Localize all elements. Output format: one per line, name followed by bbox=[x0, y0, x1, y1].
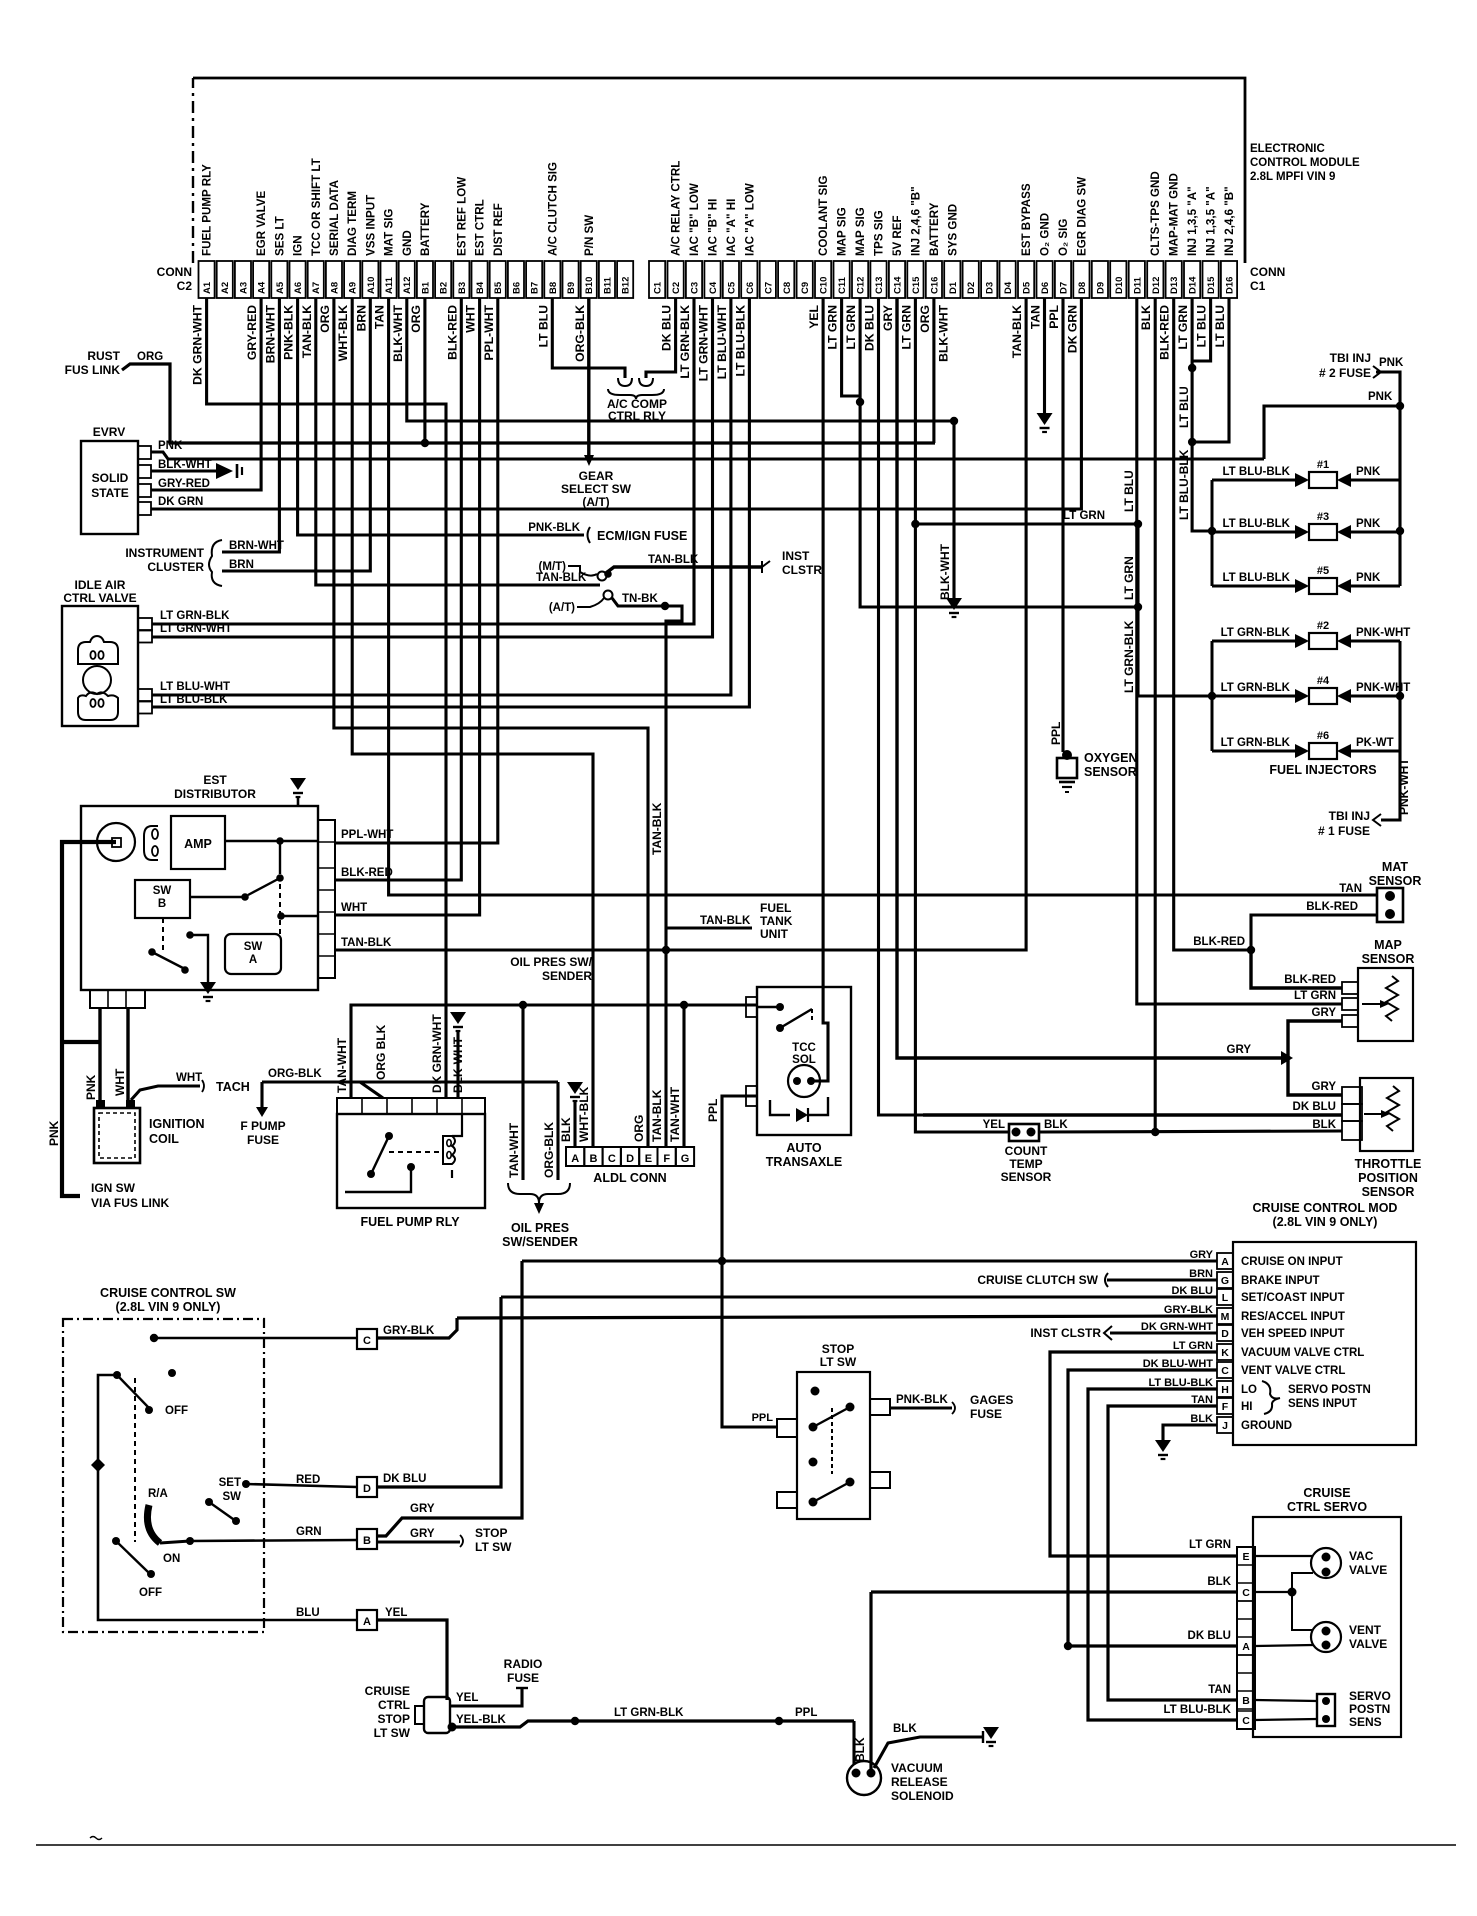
wire DK BLU-WHT cruise module C to servo vent valve bbox=[1068, 1370, 1237, 1646]
svg-text:D9: D9 bbox=[1095, 282, 1106, 294]
node PPL junction bbox=[775, 1717, 783, 1725]
wire A9 WHT-BLK to ALDL pin B bbox=[352, 298, 593, 1147]
injector 1-3-5 right bus PNK bbox=[1398, 406, 1401, 586]
svg-text:FUSE: FUSE bbox=[970, 1407, 1002, 1421]
svg-text:CRUISE CLUTCH SW: CRUISE CLUTCH SW bbox=[977, 1273, 1098, 1287]
svg-text:FUEL PUMP RLY: FUEL PUMP RLY bbox=[201, 164, 214, 256]
cruise module pin M RES/ACCEL INPUT bbox=[1217, 1308, 1233, 1324]
wire D11 LT GRN to MAP sensor bbox=[1137, 298, 1342, 1004]
svg-text:INJ 2,4,6 "B": INJ 2,4,6 "B" bbox=[909, 186, 922, 256]
node gear select M/T contact bbox=[604, 570, 612, 578]
svg-text:TAN: TAN bbox=[1339, 883, 1362, 895]
svg-text:COIL: COIL bbox=[149, 1132, 179, 1146]
svg-text:LT GRN: LT GRN bbox=[1189, 1539, 1231, 1551]
node LT GRN-BLK junction bbox=[571, 1717, 579, 1725]
node BLK-RED junction bbox=[1247, 946, 1255, 954]
svg-text:A6: A6 bbox=[293, 282, 304, 294]
svg-text:(2.8L VIN 9 ONLY): (2.8L VIN 9 ONLY) bbox=[1273, 1215, 1378, 1229]
svg-text:TACH: TACH bbox=[216, 1080, 250, 1094]
svg-text:L: L bbox=[1222, 1292, 1229, 1304]
cruise module pin C VENT VALVE CTRL bbox=[1217, 1362, 1233, 1378]
wire BLK solenoid to servo bbox=[869, 1592, 872, 1773]
wire D16 LT BLU join bbox=[1192, 298, 1229, 442]
svg-text:DK BLU: DK BLU bbox=[383, 1473, 426, 1485]
svg-text:PNK: PNK bbox=[47, 1120, 61, 1146]
svg-text:B: B bbox=[363, 1535, 371, 1547]
svg-text:D1: D1 bbox=[948, 281, 959, 294]
wire D7 PPL to oxygen sensor bbox=[1061, 298, 1064, 752]
svg-text:TRANSAXLE: TRANSAXLE bbox=[766, 1155, 842, 1169]
svg-text:OFF: OFF bbox=[139, 1587, 162, 1599]
svg-text:CLSTR: CLSTR bbox=[782, 563, 822, 577]
svg-text:LT BLU-BLK: LT BLU-BLK bbox=[1223, 518, 1291, 530]
svg-text:LT BLU: LT BLU bbox=[1195, 305, 1209, 348]
svg-text:INSTRUMENT: INSTRUMENT bbox=[125, 546, 204, 560]
wire PPL transaxle to stop light switch bbox=[722, 1096, 777, 1427]
svg-text:#1: #1 bbox=[1317, 459, 1329, 471]
svg-text:FUEL: FUEL bbox=[760, 901, 791, 915]
wire LT BLU-BLK cruise module H to servo position sense bbox=[1088, 1389, 1237, 1720]
page footer rule bbox=[36, 1844, 1456, 1846]
EVRV solid state box bbox=[81, 441, 138, 534]
svg-text:GRY: GRY bbox=[1227, 1044, 1252, 1056]
transaxle internal diode bbox=[796, 1108, 808, 1122]
svg-text:CONTROL MODULE: CONTROL MODULE bbox=[1250, 157, 1360, 169]
svg-text:PNK-BLK: PNK-BLK bbox=[528, 522, 580, 534]
distributor SW A box bbox=[225, 934, 281, 974]
svg-text:EGR VALVE: EGR VALVE bbox=[255, 190, 268, 256]
svg-text:VALVE: VALVE bbox=[1349, 1563, 1387, 1577]
wire TCC feed from ECM C10 bbox=[811, 298, 828, 1081]
wire A6 PNK-BLK to ECM/IGN fuse bbox=[298, 298, 584, 535]
svg-text:D16: D16 bbox=[1225, 277, 1236, 294]
svg-text:LT SW: LT SW bbox=[475, 1540, 512, 1554]
svg-text:SENS INPUT: SENS INPUT bbox=[1288, 1398, 1357, 1410]
wire C2 DK BLU to A/C compressor control relay bbox=[646, 298, 676, 378]
svg-text:C15: C15 bbox=[911, 276, 922, 294]
svg-text:FUSE: FUSE bbox=[507, 1671, 539, 1685]
wire YEL to cruise ctrl stop light switch bbox=[377, 1620, 447, 1700]
svg-text:DK GRN: DK GRN bbox=[1065, 305, 1079, 353]
wire TAN cruise module F to servo position sense bbox=[1108, 1406, 1237, 1700]
svg-text:VSS INPUT: VSS INPUT bbox=[364, 195, 377, 256]
svg-text:GAGES: GAGES bbox=[970, 1393, 1013, 1407]
svg-text:PPL: PPL bbox=[1049, 722, 1063, 745]
svg-text:EST: EST bbox=[203, 773, 227, 787]
wire BLK-RED to MAP sensor bbox=[1251, 950, 1342, 988]
stop light switch contacts bbox=[811, 1387, 820, 1396]
svg-text:WHT-BLK: WHT-BLK bbox=[336, 305, 350, 361]
oil pressure sender bracket bbox=[508, 1183, 570, 1203]
auto transaxle box bbox=[757, 987, 851, 1135]
svg-text:SENSOR: SENSOR bbox=[1001, 1170, 1052, 1184]
distributor ground at top bbox=[297, 797, 300, 806]
svg-text:H: H bbox=[1221, 1384, 1229, 1396]
svg-text:SENS: SENS bbox=[1349, 1715, 1382, 1729]
svg-text:SERVO: SERVO bbox=[1349, 1689, 1391, 1703]
svg-text:BLK-RED: BLK-RED bbox=[1284, 974, 1336, 986]
svg-text:STATE: STATE bbox=[91, 486, 129, 500]
svg-text:TAN-BLK: TAN-BLK bbox=[1010, 305, 1024, 358]
svg-text:MAT: MAT bbox=[1382, 860, 1409, 874]
wire A1 DK GRN-WHT to fuel pump relay bbox=[207, 298, 446, 1098]
wire A7 TAN-BLK to gear select switch bbox=[316, 298, 600, 585]
svg-text:LT SW: LT SW bbox=[820, 1355, 857, 1369]
svg-text:GRY: GRY bbox=[1190, 1249, 1214, 1261]
svg-text:A5: A5 bbox=[275, 281, 286, 294]
svg-text:ORG: ORG bbox=[918, 305, 932, 333]
distributor right connector column bbox=[318, 820, 335, 978]
svg-text:A: A bbox=[363, 1616, 371, 1628]
svg-text:SOLID: SOLID bbox=[92, 471, 129, 485]
svg-text:SENSOR: SENSOR bbox=[1362, 952, 1415, 966]
svg-text:TAN-WHT: TAN-WHT bbox=[335, 1037, 349, 1093]
svg-text:BLK-RED: BLK-RED bbox=[445, 305, 459, 360]
cruise module pin G BRAKE INPUT bbox=[1217, 1272, 1233, 1288]
fuel injector #3 bbox=[1212, 531, 1295, 534]
svg-text:C10: C10 bbox=[819, 277, 830, 294]
svg-text:C14: C14 bbox=[893, 276, 904, 294]
servo internal wiring bbox=[1255, 1555, 1312, 1557]
A/C comp ctrl rly underbrace bbox=[608, 389, 664, 399]
ECM connector C2 pin row A1-A12 B1-B12 bbox=[199, 261, 215, 298]
svg-text:CRUISE: CRUISE bbox=[1303, 1486, 1350, 1500]
svg-text:LT BLU-BLK: LT BLU-BLK bbox=[160, 694, 228, 706]
svg-text:LT GRN-BLK: LT GRN-BLK bbox=[1122, 620, 1136, 693]
svg-text:DK BLU: DK BLU bbox=[1293, 1101, 1336, 1113]
svg-text:P/N SW: P/N SW bbox=[583, 215, 596, 256]
cruise module pin K VACUUM VALVE CTRL bbox=[1217, 1344, 1233, 1360]
svg-text:LT GRN: LT GRN bbox=[1294, 990, 1336, 1002]
svg-text:C9: C9 bbox=[800, 282, 811, 294]
svg-text:DK BLU: DK BLU bbox=[660, 305, 674, 351]
svg-text:LT BLU-BLK: LT BLU-BLK bbox=[1177, 449, 1191, 520]
svg-text:B12: B12 bbox=[621, 277, 632, 294]
svg-text:(A/T): (A/T) bbox=[549, 602, 575, 614]
svg-text:LT GRN-BLK: LT GRN-BLK bbox=[1221, 627, 1291, 639]
svg-text:LT GRN: LT GRN bbox=[1122, 556, 1136, 600]
cruise switch pin C bbox=[357, 1329, 377, 1349]
wire ORG-BLK tach fuse feed to fuel pump relay bbox=[262, 1080, 558, 1083]
svg-text:SW: SW bbox=[244, 941, 263, 953]
svg-text:IAC "A" LOW: IAC "A" LOW bbox=[743, 183, 756, 256]
ECM module box U1 (electronic control module) bbox=[193, 78, 1245, 263]
node BLK sensor ground junction bbox=[1151, 1128, 1159, 1136]
svg-text:LT BLU-BLK: LT BLU-BLK bbox=[733, 305, 747, 377]
svg-text:SENSOR: SENSOR bbox=[1369, 874, 1422, 888]
svg-text:ORG-BLK: ORG-BLK bbox=[573, 305, 587, 362]
svg-text:BLK: BLK bbox=[1190, 1413, 1213, 1425]
wire DK BLU cruise module L set/coast bbox=[501, 1295, 1217, 1298]
svg-text:C12: C12 bbox=[856, 277, 867, 294]
svg-text:K: K bbox=[1221, 1347, 1229, 1359]
svg-text:LT GRN: LT GRN bbox=[1063, 510, 1105, 522]
svg-text:LT GRN-BLK: LT GRN-BLK bbox=[614, 1707, 684, 1719]
cruise switch pin D bbox=[357, 1477, 377, 1497]
svg-text:PPL: PPL bbox=[1047, 304, 1061, 328]
wire BLK cruise module J to ground bbox=[1163, 1425, 1217, 1442]
svg-text:LT GRN: LT GRN bbox=[1173, 1340, 1213, 1352]
cruise module pin H LO bbox=[1217, 1381, 1233, 1397]
distributor internal switch lower bbox=[162, 918, 164, 952]
svg-text:CTRL RLY: CTRL RLY bbox=[608, 409, 666, 423]
node distributor amp junction bbox=[276, 837, 284, 845]
servo position sense brace bbox=[1262, 1381, 1280, 1414]
svg-text:GND: GND bbox=[401, 230, 414, 256]
svg-text:SENDER: SENDER bbox=[542, 969, 592, 983]
svg-text:TCC: TCC bbox=[792, 1042, 816, 1054]
svg-text:ORG BLK: ORG BLK bbox=[374, 1024, 388, 1080]
svg-text:CTRL SERVO: CTRL SERVO bbox=[1287, 1500, 1367, 1514]
svg-text:SERVO POSTN: SERVO POSTN bbox=[1288, 1384, 1371, 1396]
svg-text:GRY: GRY bbox=[881, 305, 895, 331]
svg-text:PNK-WHT: PNK-WHT bbox=[1356, 627, 1410, 639]
node LT BLU merge bbox=[1188, 364, 1196, 372]
svg-text:PNK: PNK bbox=[1368, 391, 1393, 403]
svg-text:EST REF LOW: EST REF LOW bbox=[455, 177, 468, 256]
svg-text:# 1 FUSE: # 1 FUSE bbox=[1318, 824, 1370, 838]
svg-text:A: A bbox=[1221, 1256, 1229, 1268]
ALDL connector ground at pin A bbox=[573, 1100, 576, 1147]
svg-text:TAN: TAN bbox=[1208, 1684, 1231, 1696]
distributor internal switch upper bbox=[279, 841, 281, 874]
svg-text:B8: B8 bbox=[548, 282, 559, 294]
fuel injector #6 bbox=[1212, 750, 1295, 753]
svg-text:J: J bbox=[1222, 1420, 1228, 1432]
svg-text:MAP SIG: MAP SIG bbox=[854, 207, 867, 256]
svg-text:D3: D3 bbox=[985, 282, 996, 294]
svg-text:UNIT: UNIT bbox=[760, 927, 789, 941]
svg-text:C7: C7 bbox=[763, 282, 774, 294]
wire LT GRN-BLK vertical to injectors 2-4-6 bbox=[1134, 520, 1142, 528]
svg-text:ORG: ORG bbox=[632, 1115, 646, 1142]
svg-text:SET/COAST INPUT: SET/COAST INPUT bbox=[1241, 1292, 1345, 1304]
svg-text:#4: #4 bbox=[1317, 675, 1330, 687]
svg-text:GRY-BLK: GRY-BLK bbox=[1164, 1304, 1213, 1316]
svg-text:STOP: STOP bbox=[822, 1342, 854, 1356]
wire A8 ORG to ALDL pin E bbox=[334, 298, 648, 1147]
svg-text:D12: D12 bbox=[1151, 277, 1162, 294]
svg-text:SET: SET bbox=[219, 1477, 241, 1489]
svg-text:O₂ GND: O₂ GND bbox=[1039, 213, 1052, 256]
svg-text:COOLANT SIG: COOLANT SIG bbox=[817, 175, 830, 256]
wire C15 LT GRN injector 2-4-6 feed bbox=[915, 298, 1009, 1132]
svg-text:FUEL PUMP RLY: FUEL PUMP RLY bbox=[360, 1215, 460, 1229]
svg-text:#2: #2 bbox=[1317, 620, 1329, 632]
svg-text:LT GRN-WHT: LT GRN-WHT bbox=[697, 304, 711, 381]
svg-text:TAN-BLK: TAN-BLK bbox=[300, 305, 314, 358]
coolant temp sensor body bbox=[1009, 1124, 1039, 1141]
svg-text:C2: C2 bbox=[177, 279, 193, 293]
cruise module pin L SET/COAST INPUT bbox=[1217, 1289, 1233, 1305]
svg-text:HI: HI bbox=[1241, 1401, 1253, 1413]
svg-text:TAN: TAN bbox=[373, 305, 387, 329]
wire BLK coolant sensor to TPS bbox=[1039, 1131, 1342, 1132]
injector 2-4-6 right bus PNK-WHT bbox=[1399, 641, 1402, 751]
wire D13 BLK-RED MAP-MAT ground bbox=[1174, 298, 1251, 950]
node TN-BK junction bbox=[661, 602, 669, 610]
cruise switch pin A bbox=[357, 1610, 377, 1630]
MAT sensor body bbox=[1377, 888, 1403, 922]
svg-text:BRN: BRN bbox=[1189, 1268, 1213, 1280]
svg-text:CLUSTER: CLUSTER bbox=[147, 560, 204, 574]
noise suppressor on EVRV BLK-WHT bbox=[216, 463, 233, 479]
svg-text:TCC OR SHIFT LT: TCC OR SHIFT LT bbox=[310, 158, 323, 256]
svg-text:YEL: YEL bbox=[983, 1119, 1005, 1131]
svg-text:#6: #6 bbox=[1317, 730, 1329, 742]
svg-text:BLK: BLK bbox=[1044, 1119, 1068, 1131]
oil pressure switch sender wires bbox=[521, 1005, 524, 1180]
svg-text:#3: #3 bbox=[1317, 511, 1329, 523]
svg-text:ORG: ORG bbox=[137, 351, 163, 363]
svg-text:# 2 FUSE: # 2 FUSE bbox=[1319, 366, 1371, 380]
svg-text:AMP: AMP bbox=[184, 837, 212, 851]
cruise switch top contact bbox=[150, 1334, 158, 1342]
svg-text:DK GRN-WHT: DK GRN-WHT bbox=[1141, 1321, 1213, 1333]
wire PNK-BLK stop light switch to gages fuse bbox=[890, 1406, 952, 1409]
svg-text:C13: C13 bbox=[874, 277, 885, 294]
svg-text:C: C bbox=[1242, 1715, 1250, 1727]
wire BLK-RED to MAT sensor bbox=[1251, 915, 1377, 950]
svg-text:SYS GND: SYS GND bbox=[946, 204, 959, 256]
svg-text:PPL: PPL bbox=[752, 1412, 774, 1424]
svg-text:PNK-BLK: PNK-BLK bbox=[282, 305, 296, 360]
cruise switch R/A arc bbox=[147, 1505, 160, 1543]
svg-text:#5: #5 bbox=[1317, 565, 1329, 577]
svg-text:DK GRN-WHT: DK GRN-WHT bbox=[430, 1014, 444, 1093]
wire LT GRN branch to injectors bbox=[915, 522, 1138, 525]
svg-text:VACUUM: VACUUM bbox=[891, 1761, 943, 1775]
svg-text:GROUND: GROUND bbox=[1241, 1420, 1292, 1432]
svg-text:C4: C4 bbox=[708, 281, 719, 294]
svg-text:TAN-BLK: TAN-BLK bbox=[650, 1089, 664, 1142]
cruise switch pin B bbox=[357, 1529, 377, 1549]
svg-text:WHT-BLK: WHT-BLK bbox=[577, 1086, 591, 1142]
svg-text:WHT: WHT bbox=[341, 902, 367, 914]
svg-text:LT GRN: LT GRN bbox=[1176, 305, 1190, 349]
svg-text:A: A bbox=[571, 1153, 579, 1165]
svg-text:C: C bbox=[1221, 1365, 1229, 1377]
svg-text:COUNT: COUNT bbox=[1005, 1144, 1048, 1158]
svg-text:VENT: VENT bbox=[1349, 1623, 1382, 1637]
svg-text:MAT SIG: MAT SIG bbox=[383, 209, 396, 256]
svg-text:CLTS-TPS GND: CLTS-TPS GND bbox=[1149, 171, 1162, 256]
svg-text:DK GRN-WHT: DK GRN-WHT bbox=[191, 304, 205, 384]
svg-text:IGN SW: IGN SW bbox=[91, 1181, 136, 1195]
svg-text:C: C bbox=[363, 1335, 371, 1347]
svg-text:DIST REF: DIST REF bbox=[492, 203, 505, 256]
svg-text:OXYGEN: OXYGEN bbox=[1084, 751, 1138, 765]
svg-text:C16: C16 bbox=[929, 277, 940, 294]
svg-text:LT BLU: LT BLU bbox=[536, 305, 550, 348]
cruise switch lower off switch bbox=[112, 1537, 120, 1545]
svg-text:TAN-BLK: TAN-BLK bbox=[341, 937, 392, 949]
svg-text:LT GRN-WHT: LT GRN-WHT bbox=[160, 623, 232, 635]
wire GRY drop to TPS GRY pin bbox=[1288, 1058, 1342, 1095]
wire GRY cruise module A from cruise switch bbox=[522, 1259, 1217, 1262]
svg-text:TBI INJ: TBI INJ bbox=[1329, 809, 1370, 823]
svg-text:TANK: TANK bbox=[760, 914, 793, 928]
svg-text:YEL: YEL bbox=[807, 304, 821, 328]
svg-text:GRY: GRY bbox=[410, 1503, 435, 1515]
svg-text:SENSOR: SENSOR bbox=[1084, 765, 1137, 779]
svg-text:TAN: TAN bbox=[1029, 305, 1043, 329]
IACV solenoid winding bottom bbox=[78, 692, 118, 720]
svg-text:G: G bbox=[1221, 1275, 1229, 1287]
svg-text:INJ 2,4,6 "B": INJ 2,4,6 "B" bbox=[1223, 186, 1236, 256]
svg-text:B5: B5 bbox=[493, 281, 504, 294]
INST CLSTR arrow bbox=[762, 561, 770, 573]
svg-text:PNK: PNK bbox=[1356, 572, 1381, 584]
svg-text:RES/ACCEL INPUT: RES/ACCEL INPUT bbox=[1241, 1311, 1345, 1323]
svg-text:D15: D15 bbox=[1206, 276, 1217, 294]
svg-text:YEL: YEL bbox=[456, 1692, 478, 1704]
svg-text:TAN-BLK: TAN-BLK bbox=[700, 915, 751, 927]
wire TAN-BLK distributor to ECM D5 EST BYPASS bbox=[335, 298, 1026, 950]
wire DK GRN-WHT cruise module D vehicle speed bbox=[1110, 1331, 1217, 1334]
thick wire ignition feed from distributor cap to IGN SW bbox=[62, 842, 116, 1196]
wire TAN-WHT down to ALDL pin G bbox=[682, 1005, 685, 1147]
fuel injector #4 bbox=[1212, 695, 1295, 698]
svg-text:WHT: WHT bbox=[176, 1072, 202, 1084]
MAP potentiometer bbox=[1386, 976, 1398, 1021]
svg-text:F: F bbox=[663, 1153, 670, 1165]
svg-text:VIA FUS LINK: VIA FUS LINK bbox=[91, 1196, 170, 1210]
svg-text:C1: C1 bbox=[1250, 279, 1266, 293]
svg-text:D: D bbox=[363, 1483, 371, 1495]
svg-text:POSITION: POSITION bbox=[1358, 1171, 1418, 1185]
svg-text:BRN-WHT: BRN-WHT bbox=[263, 304, 277, 363]
svg-text:IAC "A" HI: IAC "A" HI bbox=[725, 199, 738, 256]
wire TAN-BLK vertical to ALDL pin F bbox=[665, 606, 682, 1147]
svg-text:B7: B7 bbox=[530, 282, 541, 294]
svg-text:PPL-WHT: PPL-WHT bbox=[482, 304, 496, 360]
fuel pump relay switch bbox=[385, 1132, 393, 1140]
svg-text:AUTO: AUTO bbox=[786, 1141, 821, 1155]
svg-text:ELECTRONIC: ELECTRONIC bbox=[1250, 143, 1325, 155]
svg-text:BLK-RED: BLK-RED bbox=[1306, 901, 1358, 913]
svg-text:INST: INST bbox=[782, 549, 810, 563]
svg-text:D2: D2 bbox=[966, 282, 977, 294]
svg-text:(A/T): (A/T) bbox=[582, 495, 609, 509]
svg-text:LT GRN-BLK: LT GRN-BLK bbox=[1221, 737, 1291, 749]
svg-text:LT BLU: LT BLU bbox=[1122, 470, 1136, 512]
wire DK BLU to cruise module L bbox=[377, 1297, 501, 1487]
cruise switch upper off switch bbox=[113, 1371, 121, 1379]
svg-text:LT BLU-BLK: LT BLU-BLK bbox=[1164, 1704, 1232, 1716]
svg-text:LT GRN-BLK: LT GRN-BLK bbox=[1221, 682, 1291, 694]
svg-text:C8: C8 bbox=[782, 282, 793, 294]
svg-text:CONN: CONN bbox=[157, 265, 192, 279]
svg-text:A8: A8 bbox=[329, 282, 340, 294]
svg-text:C: C bbox=[1242, 1587, 1250, 1599]
transaxle internal switch bbox=[776, 1024, 784, 1032]
svg-text:BLK: BLK bbox=[853, 1737, 867, 1762]
svg-text:D7: D7 bbox=[1059, 282, 1070, 294]
svg-text:PNK-WHT: PNK-WHT bbox=[1356, 682, 1410, 694]
svg-text:O₂ SIG: O₂ SIG bbox=[1057, 219, 1070, 256]
wire C13 DK BLU to TPS bbox=[879, 298, 924, 1115]
EST distributor box bbox=[81, 806, 318, 990]
svg-text:YEL-BLK: YEL-BLK bbox=[456, 1714, 507, 1726]
IACV pintle circle bbox=[83, 666, 111, 694]
oxygen sensor bbox=[1062, 750, 1072, 760]
svg-text:A: A bbox=[249, 954, 257, 966]
svg-text:PPL: PPL bbox=[706, 1099, 720, 1122]
svg-text:GRY: GRY bbox=[1312, 1081, 1337, 1093]
svg-text:DK BLU: DK BLU bbox=[1188, 1630, 1231, 1642]
svg-text:A10: A10 bbox=[366, 277, 377, 294]
